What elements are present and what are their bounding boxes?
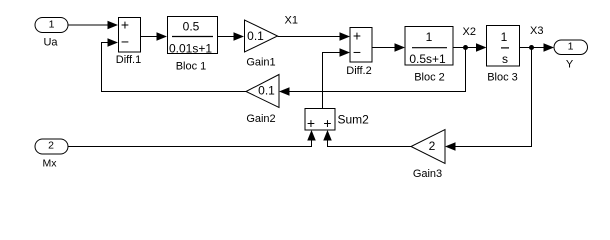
gain Gain3 — [411, 130, 445, 164]
svg-text:Diff.1: Diff.1 — [116, 54, 141, 66]
svg-text:2: 2 — [48, 140, 54, 152]
wire Gain2 to Diff.1 minus — [102, 43, 247, 92]
svg-text:0.5: 0.5 — [183, 20, 200, 34]
wire Mx to Sum2 left plus — [68, 140, 312, 147]
svg-text:+: + — [323, 115, 331, 131]
wire Diff.1 to Bloc 1 — [141, 36, 159, 38]
svg-text:0.1: 0.1 — [247, 29, 264, 43]
svg-text:1: 1 — [426, 30, 433, 44]
svg-text:+: + — [307, 115, 315, 131]
wire X2 down to Gain2 — [289, 48, 466, 92]
svg-text:0.5s+1: 0.5s+1 — [409, 52, 446, 66]
sum block Diff.1 — [119, 17, 141, 53]
svg-text:Ua: Ua — [43, 37, 58, 49]
wire Bloc 1 to Gain1 — [218, 36, 236, 38]
svg-text:Bloc 3: Bloc 3 — [487, 72, 518, 84]
svg-text:s: s — [502, 52, 508, 66]
svg-text:0.01s+1: 0.01s+1 — [169, 41, 212, 55]
wire Gain3 to Sum2 right plus — [328, 140, 412, 147]
svg-text:X2: X2 — [463, 26, 476, 38]
svg-text:1: 1 — [49, 19, 55, 31]
svg-text:+: + — [121, 17, 129, 33]
node X3 junction dot — [529, 45, 534, 50]
svg-text:−: − — [353, 44, 361, 60]
output port 1 (Y) — [554, 40, 588, 55]
svg-text:Bloc 1: Bloc 1 — [176, 61, 207, 73]
wire X1: Gain1 to Diff.2 plus — [278, 36, 342, 38]
sum block Sum2 — [305, 109, 335, 132]
svg-text:−: − — [121, 34, 129, 50]
input port 1 (Ua) — [35, 18, 68, 33]
input port 2 (Mx) — [35, 139, 68, 154]
svg-text:0.1: 0.1 — [258, 84, 275, 98]
svg-text:Diff.2: Diff.2 — [346, 65, 371, 77]
svg-text:Gain3: Gain3 — [413, 168, 442, 180]
sum block Diff.2 — [350, 28, 372, 63]
svg-text:Sum2: Sum2 — [338, 113, 370, 127]
transfer fcn Bloc 3 — [487, 26, 520, 67]
svg-text:+: + — [353, 28, 361, 44]
gain Gain1 — [245, 20, 278, 52]
svg-text:Gain1: Gain1 — [246, 57, 275, 69]
wire X3 down to Gain3 — [455, 48, 532, 147]
wire Bloc 2 to Bloc 3 — [453, 47, 478, 49]
wire Diff.2 to Bloc 2 — [372, 47, 396, 49]
transfer fcn Bloc 2 — [405, 27, 453, 67]
svg-text:X3: X3 — [530, 25, 543, 37]
svg-text:Bloc 2: Bloc 2 — [414, 72, 445, 84]
wire Bloc 3 to output — [520, 47, 546, 49]
svg-text:2: 2 — [429, 139, 436, 153]
svg-text:1: 1 — [501, 30, 508, 44]
svg-text:Mx: Mx — [43, 158, 58, 170]
svg-text:X1: X1 — [285, 15, 298, 27]
svg-text:1: 1 — [568, 41, 574, 53]
svg-text:Y: Y — [566, 59, 574, 71]
svg-text:Gain2: Gain2 — [246, 113, 275, 125]
transfer fcn Bloc 1 — [168, 17, 218, 56]
wire Sum2 up to Diff.2 minus — [323, 53, 342, 109]
node X2 junction dot — [463, 45, 468, 50]
wire Ua to Diff.1 plus — [68, 24, 109, 26]
gain Gain2 — [246, 75, 279, 108]
